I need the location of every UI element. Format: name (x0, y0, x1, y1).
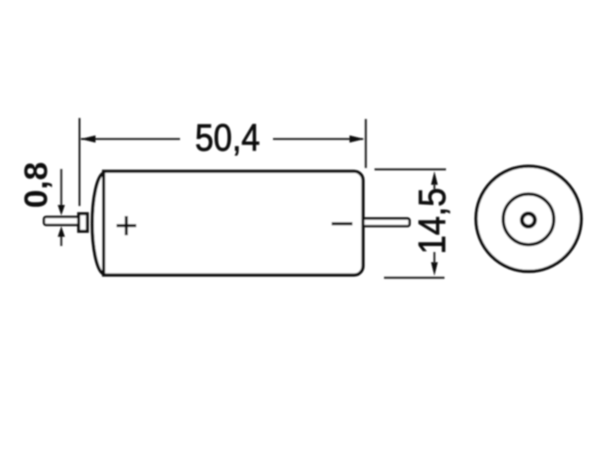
dimension 50,4 : dimension line right segment (273, 138, 363, 140)
end view inner circle (522, 214, 535, 227)
svg-text:50,4: 50,4 (195, 117, 260, 159)
dimension 50,4 : left extension line (79, 118, 81, 206)
battery dome (positive end) (92, 173, 103, 274)
dimension 14,5 : bottom extension line (384, 277, 445, 279)
battery left ferrule (79, 214, 88, 232)
dimension 14,5 : top arrowhead (431, 171, 438, 185)
battery right lead (362, 219, 410, 227)
dimension 50,4 : right arrowhead (350, 135, 365, 142)
dimension 14,5 : bottom arrowhead (431, 262, 438, 276)
end view middle circle (503, 194, 554, 245)
dimension 50,4 : dimension line left segment (81, 138, 180, 140)
plus symbol (117, 216, 137, 235)
dimension 50,4 : left arrowhead (81, 135, 96, 142)
dimension 14,5 : bottom short line (433, 252, 435, 263)
dimension 14,5 : top short line (433, 184, 435, 189)
minus symbol (332, 222, 353, 225)
battery body (104, 171, 363, 275)
dimension 0,8 : upper arrow line (60, 169, 62, 206)
dimension 0,8 : lower arrow line (60, 236, 62, 246)
end view outer circle (476, 166, 581, 271)
battery left lead (44, 217, 80, 225)
dimension 0,8 : lower arrowhead (58, 226, 65, 236)
svg-text:0,8: 0,8 (18, 162, 54, 208)
dimension 50,4 : right extension line (365, 119, 367, 168)
dimension 14,5 : top extension line (375, 168, 447, 170)
svg-text:14,5: 14,5 (411, 188, 454, 255)
dimension 0,8 : upper arrowhead (58, 205, 65, 215)
